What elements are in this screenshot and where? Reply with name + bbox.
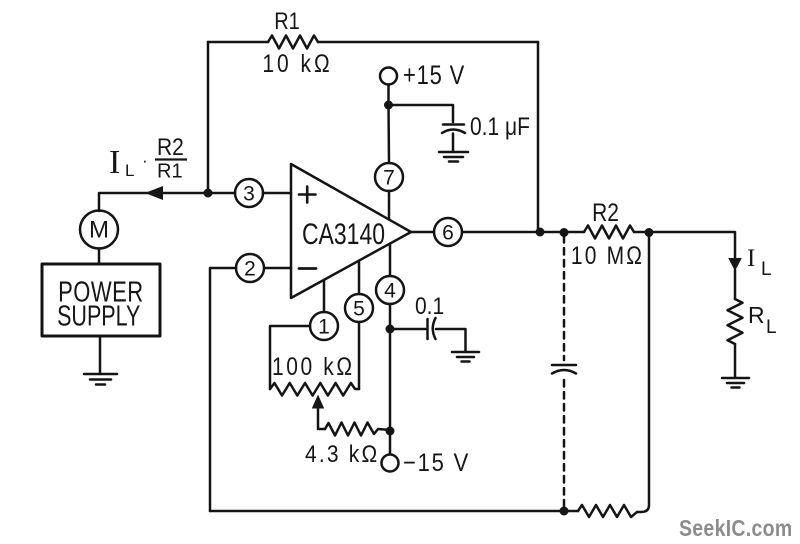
node 4.3k junction dot [386, 427, 395, 436]
svg-text:3: 3 [243, 183, 255, 206]
label IL gain [109, 134, 187, 183]
pin 4 [376, 276, 404, 304]
svg-text:R: R [748, 302, 765, 328]
svg-text:CA3140: CA3140 [302, 217, 385, 251]
wire stray capacitance dashed [563, 236, 566, 509]
wire node to meter [99, 193, 208, 211]
node stray junction dot [560, 228, 569, 237]
resistor RL [728, 299, 743, 344]
pin 6 [434, 218, 462, 246]
svg-text:10 kΩ: 10 kΩ [262, 49, 332, 77]
wire +15 node to bypass cap [389, 105, 454, 122]
wire pin 7 to top edge [388, 191, 391, 220]
svg-text:4.3 kΩ: 4.3 kΩ [305, 441, 379, 468]
arrowhead current direction left [145, 186, 163, 200]
wire pin 3 to op-amp [263, 192, 291, 195]
label op-amp minus [299, 267, 316, 270]
wire RL to ground [734, 344, 737, 378]
ground decoupling cap [452, 352, 479, 362]
wire +15 node to pin 7 [387, 105, 390, 163]
ground RL [722, 378, 749, 388]
svg-text:L: L [766, 317, 777, 338]
wire power supply to ground [99, 336, 102, 374]
svg-text:10 MΩ: 10 MΩ [571, 241, 644, 269]
pin 1 [310, 312, 338, 340]
node feedback junction dot [536, 228, 545, 237]
ground bypass cap [439, 152, 468, 162]
svg-text:SeekIC.com: SeekIC.com [679, 516, 792, 542]
svg-text:6: 6 [442, 222, 454, 245]
ground power supply [84, 374, 117, 385]
wire pin 1 left and down to pot [270, 326, 310, 389]
arrowhead wiper up [312, 395, 324, 409]
wire pin 4 to node [389, 304, 392, 329]
wire meter to power supply [98, 249, 101, 265]
svg-text:1: 1 [318, 316, 330, 339]
terminal +15 V [380, 68, 397, 85]
capacitor stray plates [552, 365, 576, 374]
wire op-amp output to pin 6 [411, 231, 434, 234]
wire cap to ground right [436, 329, 466, 352]
terminal -15 V [382, 455, 399, 472]
wire arrow to RL [734, 270, 737, 299]
wire left vertical from R1 to node [207, 42, 210, 193]
wire node to -15 rail [389, 329, 392, 431]
wire node to -15 terminal [389, 431, 392, 454]
wire cap to ground [452, 134, 455, 152]
wire pin 5 to bottom edge [358, 261, 361, 294]
svg-text:M: M [89, 217, 109, 244]
svg-text:7: 7 [383, 167, 395, 190]
resistor R1 [268, 36, 318, 49]
wire R2 to load node [634, 231, 649, 234]
wire top feedback right lead [318, 41, 538, 44]
wire right vertical from R1 to output [537, 42, 540, 232]
svg-text:I: I [747, 245, 755, 272]
svg-text:R2: R2 [592, 198, 619, 226]
wire load node to RL branch [649, 232, 735, 259]
node load junction dot [645, 228, 654, 237]
resistor R2 [584, 226, 634, 239]
svg-text:4: 4 [384, 280, 396, 303]
wire 4.3k to node [389, 429, 390, 431]
wire pin 6 to R2 [462, 231, 584, 234]
svg-text:2: 2 [244, 258, 256, 281]
svg-text:SUPPLY: SUPPLY [57, 301, 140, 333]
wire wiper to 4.3k [318, 408, 325, 429]
wire feedback right vertical [637, 232, 649, 512]
label op-amp plus [299, 187, 316, 203]
wire node to decoupling cap [394, 328, 426, 331]
capacitor C2 0.1 plates [428, 318, 436, 339]
svg-text:L: L [761, 259, 772, 280]
node +15 junction dot [384, 101, 393, 110]
pin 7 [375, 163, 403, 191]
wire pin 5 to pot right end [358, 322, 361, 389]
pin 3 [235, 179, 263, 207]
arrowhead IL down [728, 258, 742, 271]
svg-text:R1: R1 [274, 7, 300, 34]
svg-text:+15 V: +15 V [403, 61, 465, 90]
label RL load [748, 302, 777, 338]
wire node to pin 3 [208, 192, 235, 195]
svg-text:L: L [125, 161, 134, 180]
svg-text:5: 5 [353, 298, 365, 321]
svg-text:R2: R2 [157, 134, 184, 161]
wire op-amp to pin 2 [264, 267, 291, 270]
wire terminal to node [387, 85, 390, 106]
svg-text:0.1: 0.1 [415, 293, 444, 320]
node pin4 junction dot [386, 325, 395, 334]
wire pin 1 to bottom edge [323, 280, 326, 312]
wire top feedback left lead [208, 41, 268, 44]
resistor bottom feedback [578, 505, 637, 517]
meter M [80, 211, 118, 249]
wire bottom rail [210, 510, 578, 513]
wire pin 2 left and down to bottom rail [210, 268, 236, 511]
svg-text:0.1 μF: 0.1 μF [470, 112, 530, 140]
capacitor C1 0.01uF plates [442, 125, 465, 134]
potentiometer 100k [270, 383, 359, 396]
node bottom stray junction dot [560, 507, 569, 516]
label IL load [747, 245, 772, 280]
svg-text:I: I [109, 144, 120, 181]
svg-text:100 kΩ: 100 kΩ [272, 352, 355, 380]
svg-text:−15 V: −15 V [403, 450, 470, 478]
pin 5 [345, 294, 373, 322]
pin 2 [236, 254, 264, 282]
svg-text:·: · [142, 151, 148, 170]
wire pin 4 to bottom edge [389, 244, 392, 276]
svg-text:R1: R1 [157, 161, 183, 183]
op-amp U1 CA3140 triangle [291, 164, 411, 298]
resistor 4.3k [325, 423, 390, 436]
node A junction dot [204, 189, 213, 198]
power supply box [42, 264, 160, 336]
